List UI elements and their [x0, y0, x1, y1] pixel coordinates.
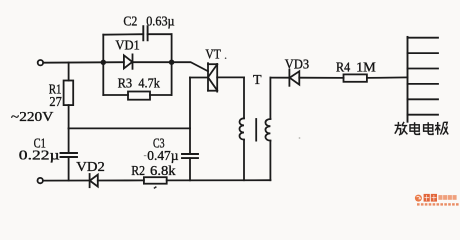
wire C3 bottom lead [189, 158, 191, 180]
speck left of 0.47u [144, 155, 147, 156]
electrode tooth 1 [408, 37, 439, 39]
svg-text:VD1: VD1 [115, 39, 139, 54]
svg-text:R4: R4 [336, 60, 350, 75]
terminal bottom-left [38, 178, 43, 183]
wire middle branch [103, 61, 124, 63]
node B junction dot right [169, 60, 174, 65]
char 放 [395, 122, 408, 135]
resistor R2 [144, 177, 167, 184]
wire C1 bottom lead [68, 157, 70, 181]
wire C1 top lead [68, 128, 70, 153]
diode VD2 [90, 174, 98, 187]
svg-text:6.8k: 6.8k [150, 164, 176, 179]
node block-right edge [171, 34, 173, 95]
resistor R4 [344, 74, 367, 81]
node block-left edge [102, 35, 104, 95]
transformer T core [255, 119, 257, 141]
wire top branch [103, 33, 143, 36]
char 电 (1) [410, 122, 419, 134]
electrode tooth 5 [408, 98, 439, 100]
wire left vertical drop [189, 78, 191, 155]
wire bottom rail mid [98, 179, 144, 181]
svg-text:0.63µ: 0.63µ [146, 15, 174, 30]
resistor R3 [128, 92, 150, 100]
electrode tooth 2 [408, 52, 439, 54]
transistor VT (triac) [208, 63, 217, 91]
char 极 [435, 122, 448, 135]
svg-text:~220V: ~220V [11, 110, 53, 125]
wire secondary top lead [269, 78, 271, 119]
svg-text:0.22µ: 0.22µ [19, 149, 60, 164]
speck right of VT label [225, 57, 227, 59]
electrode tooth 6 [408, 114, 439, 116]
faint smudge mid-right [299, 137, 301, 139]
wire R4 to electrode [367, 76, 408, 79]
svg-text:27: 27 [49, 95, 61, 110]
wire bottom branch [103, 94, 128, 96]
electrode tooth 3 [408, 68, 439, 70]
svg-text:R3: R3 [118, 77, 133, 92]
svg-text:VD2: VD2 [76, 160, 105, 175]
wire VT right terminal [217, 76, 244, 78]
capacitor C2 [143, 26, 147, 40]
wire bottom rail right [167, 179, 271, 181]
svg-text:T: T [253, 73, 262, 88]
capacitor C1 [61, 153, 78, 157]
wire VT left terminal [190, 77, 208, 79]
wire bottom rail left [43, 180, 89, 182]
wire secondary bottom lead [269, 141, 271, 181]
svg-text:4.7k: 4.7k [138, 77, 160, 92]
svg-text:C2: C2 [123, 15, 137, 30]
svg-text:VT: VT [205, 47, 221, 62]
capacitor C3 [182, 154, 198, 158]
svg-text:1M: 1M [356, 60, 376, 75]
char 电 (2) [424, 122, 433, 134]
discharge electrode bar [407, 37, 409, 122]
transformer T secondary winding [265, 119, 270, 141]
label 放电电极 (discharge electrode, drawn strokes) [395, 122, 449, 135]
wire VD3 to R4 [299, 77, 343, 79]
svg-text:0.47µ: 0.47µ [147, 149, 178, 164]
wire R1 bottom lead [68, 105, 70, 128]
wire secondary to VD3 [270, 77, 289, 79]
wire R1 top lead [68, 63, 70, 81]
diode VD3 [289, 70, 299, 86]
svg-text:VD3: VD3 [285, 58, 309, 73]
wire top rail [43, 61, 103, 63]
svg-text:R2: R2 [131, 164, 145, 179]
speck under R2 [154, 186, 157, 189]
transformer T primary winding [240, 118, 245, 139]
electrode tooth 4 [408, 83, 439, 85]
wire primary top lead [243, 77, 245, 118]
wire gate of VT [172, 62, 208, 71]
watermark logo [415, 194, 459, 206]
wire primary bottom lead [243, 140, 245, 181]
wire middle rail [69, 127, 190, 129]
resistor R1 [64, 81, 74, 106]
diode VD1 [124, 54, 133, 68]
node A junction dot left [101, 60, 106, 65]
terminal top-left [38, 60, 43, 65]
